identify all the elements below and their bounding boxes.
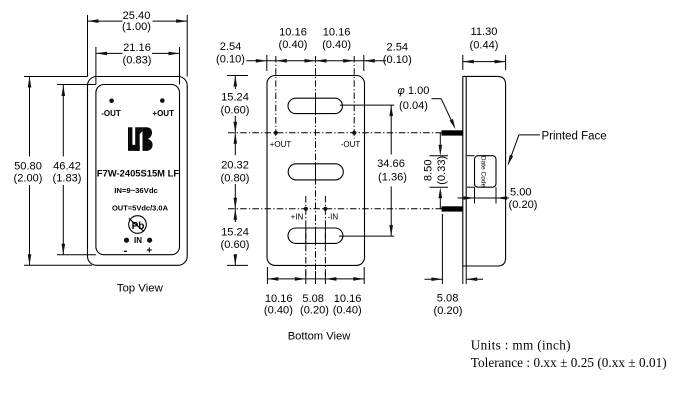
dim 21.16 line bbox=[96, 52, 123, 54]
IN pin dot left bbox=[124, 238, 129, 243]
svg-text:10.16: 10.16 bbox=[323, 27, 351, 39]
centerline col +IN bbox=[305, 196, 307, 277]
svg-text:11.30: 11.30 bbox=[471, 26, 498, 38]
bottom view case bbox=[267, 76, 365, 266]
svg-text:(0.44): (0.44) bbox=[470, 39, 499, 51]
svg-text:OUT=5Vdc/3.0A: OUT=5Vdc/3.0A bbox=[112, 203, 169, 212]
svg-text:(0.83): (0.83) bbox=[123, 54, 152, 66]
svg-text:Printed Face: Printed Face bbox=[542, 130, 607, 142]
slot 1 bbox=[288, 98, 343, 113]
left chain top tick bbox=[227, 75, 248, 77]
svg-text:(1.36): (1.36) bbox=[378, 172, 407, 184]
svg-text:5.08: 5.08 bbox=[302, 293, 324, 305]
left chain dim line bbox=[234, 76, 236, 90]
dim 34.66 line bbox=[390, 105, 392, 154]
svg-text:+OUT: +OUT bbox=[270, 140, 292, 149]
svg-text:2.54: 2.54 bbox=[387, 42, 409, 54]
slot 3 bbox=[288, 228, 343, 243]
svg-text:46.42: 46.42 bbox=[53, 160, 81, 172]
dim 34.66 leader top bbox=[340, 104, 394, 106]
dim 50.80 bottom ext bbox=[24, 264, 92, 266]
svg-text:-OUT: -OUT bbox=[341, 140, 361, 149]
svg-text:F7W-2405S15M LF: F7W-2405S15M LF bbox=[97, 168, 179, 179]
svg-text:Date Code: Date Code bbox=[480, 156, 487, 188]
svg-text:5.00: 5.00 bbox=[510, 186, 532, 198]
printed face leader bbox=[508, 135, 519, 164]
svg-text:8.50: 8.50 bbox=[423, 160, 435, 182]
svg-text:IN: IN bbox=[134, 236, 142, 245]
pin +OUT bbox=[274, 131, 278, 135]
svg-text:(0.04): (0.04) bbox=[399, 100, 428, 112]
svg-text:(0.10): (0.10) bbox=[216, 54, 245, 66]
svg-text:(0.80): (0.80) bbox=[221, 173, 250, 185]
svg-text:(0.20): (0.20) bbox=[509, 199, 538, 211]
svg-text:(2.00): (2.00) bbox=[14, 173, 43, 185]
svg-text:(0.20): (0.20) bbox=[434, 305, 463, 317]
svg-text:φ 1.00: φ 1.00 bbox=[398, 85, 430, 97]
bottom dim chain bbox=[267, 278, 364, 280]
svg-text:10.16: 10.16 bbox=[334, 293, 362, 305]
side pin 2 bbox=[442, 206, 463, 211]
left chain bottom tick bbox=[227, 264, 248, 266]
svg-text:Units : mm (inch): Units : mm (inch) bbox=[471, 337, 571, 352]
pin +IN bbox=[304, 207, 308, 211]
dim 8.50 line bbox=[439, 133, 441, 145]
svg-text:Tolerance : 0.xx ± 0.25 (0.xx: Tolerance : 0.xx ± 0.25 (0.xx ± 0.01) bbox=[471, 355, 667, 370]
dim 25.40 extension lines bbox=[87, 15, 89, 77]
pin -OUT bbox=[352, 131, 356, 135]
svg-text:(0.20): (0.20) bbox=[300, 305, 329, 317]
svg-text:+: + bbox=[146, 246, 152, 257]
Pb-free symbol bbox=[129, 216, 147, 234]
centerline row OUT bbox=[228, 132, 442, 134]
date code box bbox=[475, 156, 497, 188]
svg-text:Top View: Top View bbox=[117, 282, 164, 294]
svg-text:(0.40): (0.40) bbox=[264, 305, 293, 317]
side view body bbox=[463, 76, 506, 266]
svg-text:5.08: 5.08 bbox=[437, 293, 459, 305]
svg-text:50.80: 50.80 bbox=[14, 160, 42, 172]
svg-text:15.24: 15.24 bbox=[221, 226, 249, 238]
svg-text:-OUT: -OUT bbox=[101, 109, 121, 118]
svg-text:+OUT: +OUT bbox=[152, 109, 174, 118]
dim 11.30 ext bbox=[462, 55, 464, 70]
dim 5.00 ticks bbox=[474, 187, 476, 203]
svg-text:(0.60): (0.60) bbox=[221, 104, 250, 116]
side pin 1 bbox=[442, 130, 463, 135]
dim 46.42 bottom ext bbox=[57, 254, 96, 256]
dim 5.08 side line bbox=[425, 278, 443, 280]
svg-text:21.16: 21.16 bbox=[123, 42, 151, 54]
dim 46.42 top ext bbox=[57, 84, 96, 86]
svg-text:34.66: 34.66 bbox=[377, 158, 405, 170]
top view inner case bbox=[96, 85, 180, 255]
svg-text:-IN: -IN bbox=[327, 213, 338, 222]
dim 21.16 extension lines bbox=[95, 47, 97, 85]
svg-text:20.32: 20.32 bbox=[221, 160, 249, 172]
svg-text:10.16: 10.16 bbox=[279, 27, 307, 39]
top view outer case bbox=[88, 77, 188, 266]
svg-text:(0.40): (0.40) bbox=[333, 305, 362, 317]
svg-text:(0.10): (0.10) bbox=[383, 54, 412, 66]
phi leader bbox=[432, 98, 442, 100]
svg-text:Bottom View: Bottom View bbox=[288, 331, 352, 343]
dim 25.40 line bbox=[88, 20, 123, 22]
dim 50.80 line bbox=[29, 77, 31, 157]
svg-text:+IN: +IN bbox=[291, 213, 304, 222]
top view pin dot +OUT bbox=[160, 98, 165, 103]
centerline solid segments through slots bbox=[315, 97, 317, 115]
IN pin dot right bbox=[147, 238, 152, 243]
dim 5.08 side ext bbox=[441, 214, 443, 284]
side view inner face line bbox=[465, 76, 467, 266]
slot 2 bbox=[288, 164, 343, 180]
top view pin dot -OUT bbox=[109, 99, 114, 104]
dim 34.66 leader bottom bbox=[339, 235, 394, 237]
centerline col -OUT bbox=[353, 56, 355, 139]
logo LB glyph bbox=[128, 127, 153, 151]
centerline col -IN bbox=[324, 196, 326, 277]
pin -IN bbox=[323, 207, 327, 211]
dim 8.50 ticks bbox=[430, 155, 449, 157]
svg-text:(1.00): (1.00) bbox=[122, 21, 151, 33]
svg-text:(0.60): (0.60) bbox=[221, 239, 250, 251]
centerline row IN bbox=[228, 208, 442, 210]
svg-text:(0.40): (0.40) bbox=[322, 39, 351, 51]
svg-text:10.16: 10.16 bbox=[265, 293, 293, 305]
dim 5.00 line bbox=[458, 197, 510, 199]
dim 11.30 line bbox=[463, 61, 506, 63]
dim 46.42 line bbox=[62, 85, 64, 157]
svg-text:2.54: 2.54 bbox=[220, 41, 242, 53]
svg-text:(1.83): (1.83) bbox=[53, 173, 82, 185]
svg-text:(0.33): (0.33) bbox=[436, 156, 448, 185]
svg-text:-: - bbox=[124, 245, 128, 257]
svg-text:15.24: 15.24 bbox=[221, 92, 249, 104]
svg-text:IN=9~36Vdc: IN=9~36Vdc bbox=[114, 186, 158, 195]
svg-text:(0.40): (0.40) bbox=[279, 39, 308, 51]
top dim chain line bbox=[247, 60, 387, 62]
centerline col +OUT bbox=[275, 56, 277, 139]
centerline col middle bbox=[315, 56, 317, 277]
dim 50.80 top ext bbox=[24, 76, 88, 78]
